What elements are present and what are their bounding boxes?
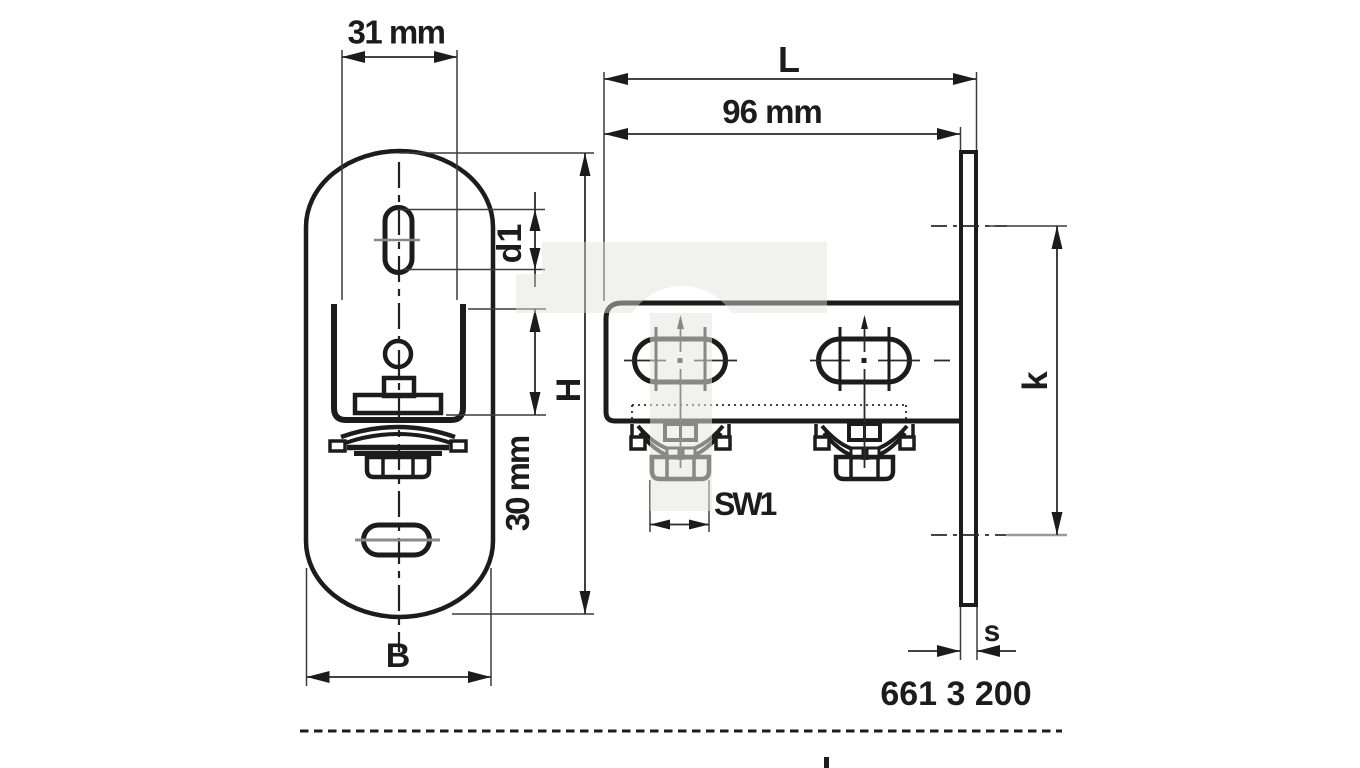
pilot circle — [385, 341, 411, 367]
lower hole centerline (dash-dot) — [931, 534, 1007, 536]
mounting plate (side view vertical bar) — [961, 152, 976, 605]
spring saddle (front view dome washer) — [341, 427, 455, 437]
nut hex flats — [381, 457, 385, 477]
svg-text:s: s — [984, 615, 1001, 648]
watermark strip overlay — [650, 313, 712, 511]
svg-text:SW1: SW1 — [714, 486, 777, 522]
svg-text:31 mm: 31 mm — [347, 14, 444, 51]
svg-text:k: k — [1016, 371, 1055, 391]
bolt head tab — [384, 378, 414, 396]
dimension SW1 — [650, 480, 777, 532]
dimension s — [908, 607, 1016, 660]
svg-text:L: L — [778, 39, 800, 80]
lower slot (horizontal obround hole) — [364, 525, 430, 555]
centerline of bracket (vertical dashed) — [398, 162, 400, 652]
dimension k — [985, 226, 1067, 535]
svg-text:30 mm: 30 mm — [499, 436, 536, 531]
left bolt clamp hardware (side view, under body) — [631, 424, 730, 479]
right bolt head oval (side view) — [810, 315, 950, 424]
saddle left tab — [330, 441, 345, 451]
watermark band overlay with circular hole — [542, 242, 827, 313]
dimension B — [307, 568, 492, 686]
cropped glyph at bottom edge — [824, 757, 829, 768]
right bolt clamp hardware (side view, under body) — [815, 424, 914, 479]
clamp body (side view) — [606, 303, 961, 421]
svg-text:B: B — [386, 637, 411, 675]
hidden edge dotted line in body — [632, 404, 906, 406]
left bolt head oval (side view) — [624, 315, 737, 424]
lower slot horizontal crosshair — [355, 539, 440, 542]
dimension d1 — [398, 192, 545, 287]
svg-text:d1: d1 — [491, 224, 529, 264]
top slot horizontal crosshair — [374, 239, 420, 242]
bottom separator dashed line — [300, 730, 1062, 733]
dimension 30 mm — [446, 309, 546, 531]
svg-text:96 mm: 96 mm — [722, 93, 822, 130]
svg-text:661 3 200: 661 3 200 — [880, 675, 1031, 713]
svg-text:H: H — [550, 378, 588, 403]
dimension H — [399, 153, 594, 614]
top slot d1 (vertical obround hole) — [385, 208, 412, 273]
dimension 31 mm — [342, 14, 457, 301]
clamp plate inside U — [355, 395, 441, 413]
nut (front view) — [367, 457, 429, 477]
U channel (clamp channel in front view) — [334, 304, 463, 420]
upper hole centerline (dash-dot) — [931, 225, 1007, 227]
saddle right tab — [451, 441, 466, 451]
bracket outline (front view stadium body) — [306, 151, 493, 617]
dimension L — [604, 39, 977, 301]
dimension 96 mm — [604, 93, 961, 150]
